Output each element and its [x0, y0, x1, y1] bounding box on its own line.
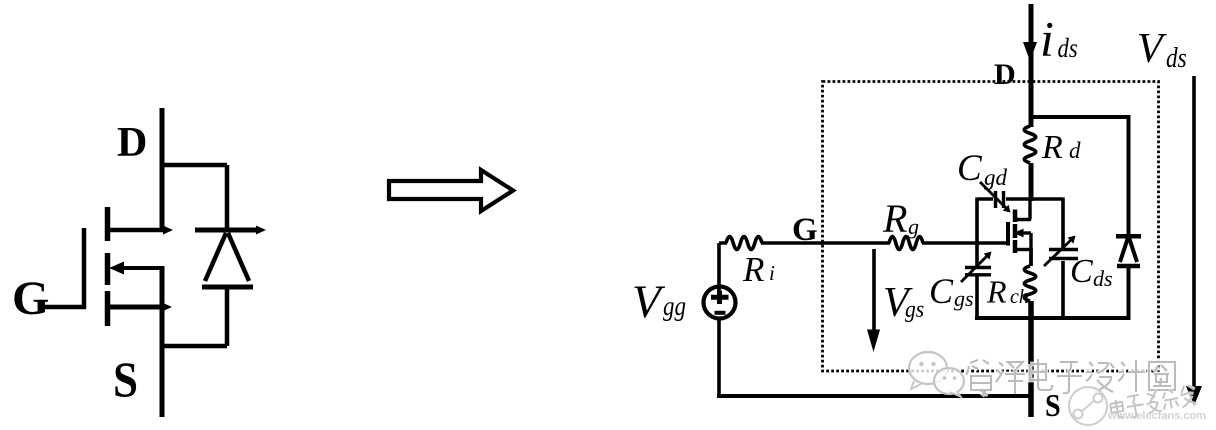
svg-text:ds: ds: [1166, 42, 1187, 74]
wire drain top: [1029, 4, 1034, 127]
mosfet U drain lead: [1015, 199, 1031, 220]
wire right branch vertical lower: [1127, 266, 1131, 318]
wire body-to-source vertical: [160, 266, 165, 309]
svg-text:V: V: [632, 276, 666, 328]
svg-text:R: R: [742, 250, 764, 289]
capacitor Cds bars: [1049, 250, 1078, 259]
wire gate plate vertical: [82, 228, 87, 309]
resistor Ri zigzag: [726, 237, 762, 250]
svg-text:gs: gs: [954, 286, 974, 311]
inner box top edge: [977, 197, 1063, 201]
svg-text:C: C: [1070, 253, 1093, 290]
inner box bottom edge: [975, 316, 1131, 320]
svg-text:i: i: [769, 261, 775, 285]
watermark elecfans logo: [1069, 387, 1107, 425]
wire drain vertical: [160, 108, 165, 232]
diode triangle legs: [205, 233, 249, 281]
watermark text 贸泽电子设计圈: [966, 359, 1175, 396]
wire drain connection: [110, 228, 163, 233]
mosfet U body-source vertical: [1029, 233, 1032, 250]
wire source to Rch: [1029, 248, 1033, 266]
svg-text:S: S: [113, 353, 138, 408]
wire Vgg top: [717, 243, 721, 295]
svg-text:R: R: [1041, 129, 1063, 166]
svg-text:D: D: [117, 120, 147, 166]
transistor channel bar middle: [105, 253, 111, 285]
capacitor Cgd bars: [996, 191, 1004, 208]
wire diode bottom vertical: [225, 287, 230, 346]
resistor Rch zigzag: [1024, 266, 1036, 301]
mosfet U source lead: [1016, 248, 1031, 251]
svg-text:S: S: [1045, 387, 1061, 423]
inner box left edge: [975, 198, 979, 320]
capacitor Cgd arrow: [980, 182, 1006, 208]
svg-text:G: G: [792, 212, 818, 248]
wire right branch vertical upper: [1127, 115, 1131, 236]
diode D body (right) cathode bar: [1116, 234, 1141, 239]
svg-text:gd: gd: [984, 165, 1008, 190]
mosfet U channel bars: [1013, 210, 1018, 254]
svg-text:C: C: [957, 148, 983, 189]
diode anode bar: [202, 285, 253, 290]
svg-text:D: D: [994, 58, 1016, 91]
wire diode bottom horizontal: [162, 344, 227, 349]
wire drain mid: [1029, 163, 1034, 201]
source Vgg circle: [704, 287, 736, 319]
resistor Rd zigzag: [1024, 126, 1036, 163]
svg-text:gg: gg: [663, 292, 686, 321]
svg-text:C: C: [929, 271, 954, 311]
mosfet U body arrow: [1021, 231, 1031, 234]
wire Vgg bottom: [717, 318, 721, 398]
svg-text:R: R: [986, 274, 1007, 310]
wire source below box: [1028, 301, 1034, 417]
wire right branch top horizontal: [1031, 115, 1129, 119]
dashed boundary box: [823, 82, 1159, 372]
wire gate lead horizontal: [40, 305, 86, 310]
wire bottom return: [717, 394, 1031, 398]
Vgg minus: [715, 311, 726, 315]
mosfet U gate plate: [1006, 222, 1010, 246]
wire source vertical: [160, 305, 165, 417]
arrow ids: [1023, 42, 1037, 61]
Vds measurement line: [1192, 76, 1196, 390]
wire diode top horizontal: [162, 163, 227, 168]
resistor Rg zigzag: [889, 237, 923, 250]
big arrow: [389, 170, 513, 211]
svg-text:G: G: [12, 272, 49, 325]
svg-text:i: i: [1040, 11, 1054, 67]
gate wire: [719, 241, 1008, 245]
Vgg plus: [711, 291, 729, 305]
svg-text:g: g: [908, 214, 919, 239]
body arrow: [118, 266, 162, 270]
svg-text:gs: gs: [905, 296, 924, 322]
svg-text:ch: ch: [1010, 286, 1029, 308]
arrow Vgs: [872, 249, 876, 338]
svg-text:d: d: [1069, 138, 1081, 163]
capacitor Cgs bars: [965, 268, 991, 275]
inner box right edge: [1061, 198, 1065, 320]
watermark wechat logo: [909, 352, 964, 397]
svg-text:ds: ds: [1093, 266, 1113, 291]
diode D body legs: [1120, 239, 1137, 263]
transistor channel bar bottom: [105, 291, 111, 326]
wire source connection: [110, 305, 163, 310]
svg-text:www.elecfans.com: www.elecfans.com: [1107, 410, 1206, 422]
capacitor Cds arrow: [1044, 240, 1071, 266]
watermark 电子发烧友 rotated: [1109, 383, 1198, 421]
diode cathode bar: [195, 228, 257, 233]
transistor channel bar top: [105, 207, 111, 241]
capacitor Cgs arrow: [961, 256, 987, 282]
svg-text:R: R: [882, 196, 907, 241]
svg-text:V: V: [1137, 26, 1167, 72]
svg-text:ds: ds: [1058, 34, 1078, 63]
wire diode top vertical: [225, 165, 230, 230]
diode D body anode bar: [1117, 264, 1140, 269]
